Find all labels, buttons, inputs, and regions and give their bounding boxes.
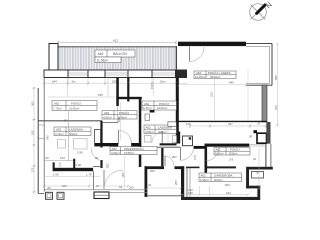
- door leaf to passage: [180, 147, 182, 160]
- door arc right pokoj: [206, 148, 219, 161]
- balcony hatched floor: [59, 47, 177, 70]
- svg-text:205: 205: [106, 163, 110, 168]
- wall right jog: [266, 122, 270, 144]
- svg-text:148: 148: [188, 191, 193, 195]
- door arc hall to small room: [118, 130, 131, 143]
- svg-text:2-9: 2-9: [229, 158, 233, 162]
- label box A62 GARDEROBA: [199, 173, 242, 182]
- label box A62 LAZIENKA left: [54, 127, 91, 136]
- bottom center room walls: [145, 166, 165, 169]
- svg-text:96: 96: [95, 156, 99, 160]
- left vertical dimension line: [32, 88, 36, 192]
- bathroom radiator fixture: [95, 130, 101, 147]
- svg-text:153: 153: [150, 84, 154, 89]
- bathroom bottom wall step: [44, 159, 75, 161]
- dim line y126: [190, 124, 270, 128]
- bathroom top wall: [38, 120, 102, 122]
- wall between block and right room: [176, 78, 179, 144]
- svg-text:40/92m²: 40/92m²: [210, 75, 220, 79]
- svg-text:12/92m²: 12/92m²: [69, 107, 79, 111]
- bath2 door leaf: [161, 132, 163, 144]
- door arc top-right room: [190, 47, 205, 62]
- vertical dim 313: [214, 79, 216, 120]
- bath2 fixtures: [145, 114, 150, 120]
- svg-text:91: 91: [253, 157, 257, 161]
- label box A62 PRZEDPOKOJ: [110, 146, 157, 155]
- label box A62 POKOJ mid-right: [142, 101, 176, 110]
- svg-text:11.06m²: 11.06m²: [97, 59, 108, 63]
- svg-text:2.99: 2.99: [77, 151, 83, 155]
- svg-text:313: 313: [210, 92, 214, 97]
- svg-text:A62: A62: [216, 148, 221, 152]
- vertical dim right-mid: [153, 78, 155, 96]
- svg-text:84: 84: [48, 186, 52, 190]
- svg-text:10/65m²: 10/65m²: [124, 151, 134, 155]
- wall thin y143.5: [141, 146, 180, 148]
- bath2 door arc: [152, 132, 162, 143]
- wall horizontal mid: [116, 97, 142, 99]
- svg-text:A62: A62: [54, 102, 60, 106]
- svg-text:2.4: 2.4: [58, 162, 62, 166]
- svg-text:203: 203: [129, 186, 134, 190]
- svg-text:203: 203: [225, 183, 230, 187]
- svg-text:205: 205: [174, 180, 178, 185]
- wall segment: [44, 70, 68, 78]
- bathroom right wall: [100, 121, 102, 148]
- svg-text:4.65m²: 4.65m²: [145, 130, 154, 134]
- svg-text:244: 244: [52, 79, 57, 83]
- svg-text:2.95m²: 2.95m²: [200, 178, 209, 182]
- garderoba top wall: [186, 166, 200, 168]
- svg-text:8.60m²: 8.60m²: [215, 152, 223, 156]
- wall top of small room: [102, 122, 118, 124]
- wall bottom of right room y121: [176, 120, 267, 122]
- svg-text:38: 38: [249, 134, 253, 138]
- balcony dimension line 412: [58, 41, 176, 45]
- svg-text:4.65m²: 4.65m²: [111, 151, 120, 155]
- svg-text:440: 440: [229, 81, 234, 85]
- svg-text:313: 313: [274, 105, 278, 110]
- svg-text:5/29m²: 5/29m²: [214, 178, 223, 182]
- top-right thick wall: [178, 42, 246, 46]
- bathroom fixtures: [74, 139, 88, 150]
- right room left wall: [175, 46, 177, 70]
- svg-text:267: 267: [172, 155, 177, 159]
- svg-text:205: 205: [121, 172, 125, 177]
- svg-text:1.78: 1.78: [86, 173, 92, 177]
- shaft white square: [257, 133, 267, 143]
- svg-text:7.73m²: 7.73m²: [53, 107, 62, 111]
- svg-text:12/10m²: 12/10m²: [157, 106, 167, 110]
- door arc to passage: [181, 147, 194, 160]
- garderoba left double wall: [186, 168, 188, 197]
- corner window right side: [246, 43, 272, 85]
- wall between left rooms: [116, 78, 119, 107]
- wall stub hall-east: [161, 148, 163, 166]
- svg-text:4.57m²: 4.57m²: [103, 115, 112, 119]
- svg-text:4.72m²: 4.72m²: [55, 132, 64, 136]
- svg-text:224: 224: [226, 191, 231, 195]
- compass needle: [256, 4, 266, 14]
- svg-text:155: 155: [98, 93, 103, 97]
- svg-text:POKÓJ: POKÓJ: [159, 101, 169, 106]
- svg-text:A62: A62: [98, 52, 104, 56]
- vertical dim mid: [120, 102, 122, 140]
- svg-text:5/02m²: 5/02m²: [69, 132, 78, 136]
- dryer: [57, 192, 64, 199]
- balcony label box A62 BALKON: [95, 50, 135, 63]
- wall vertical mid: [139, 97, 142, 167]
- svg-text:110: 110: [186, 122, 191, 126]
- entrance door arc: [104, 170, 123, 189]
- svg-text:117: 117: [31, 167, 35, 172]
- exterior window wall band: [44, 69, 187, 71]
- svg-text:2m: 2m: [72, 79, 77, 83]
- svg-text:9/30m²: 9/30m²: [229, 152, 237, 156]
- wall above right pokoj: [205, 144, 250, 147]
- dimension line y97: [48, 96, 115, 98]
- svg-text:180: 180: [117, 117, 121, 122]
- SE fixture box: [252, 172, 264, 179]
- svg-text:1.28: 1.28: [76, 163, 82, 167]
- wall edge left of entrance: [93, 171, 95, 190]
- svg-text:200: 200: [150, 169, 155, 173]
- svg-text:1.06: 1.06: [53, 173, 59, 177]
- window glazing lines: [68, 73, 175, 75]
- wall segment: [88, 70, 105, 78]
- label box A62 POKOJ bottom right: [214, 147, 250, 156]
- wall pier dark: [175, 70, 187, 78]
- dimension line under windows: [44, 78, 187, 97]
- svg-text:94: 94: [119, 185, 123, 189]
- svg-text:365: 365: [31, 101, 35, 106]
- label box A62 POKOJ small: [102, 110, 137, 119]
- vertical dim hall south: [124, 156, 126, 190]
- svg-text:247: 247: [228, 122, 233, 126]
- door gap arc bottom room: [165, 156, 174, 167]
- svg-text:POKÓJ: POKÓJ: [71, 101, 81, 106]
- balcony pillar: [49, 44, 58, 71]
- wall duct: [127, 78, 129, 102]
- left exterior wall lines: [37, 88, 39, 194]
- right gray wall: [262, 85, 267, 122]
- bath2 south wall: [160, 143, 177, 145]
- right vertical dim: [277, 44, 279, 126]
- svg-text:695: 695: [274, 75, 278, 80]
- label box A62 POKOJ left: [52, 101, 97, 111]
- door leaf top-right room: [189, 47, 191, 62]
- svg-text:94: 94: [46, 156, 50, 160]
- label box A62 LAZIENKA right: [144, 125, 176, 134]
- dimension tick marks: [33, 41, 279, 195]
- hall top wall: [95, 143, 118, 146]
- svg-text:173: 173: [193, 155, 197, 160]
- bottom wall right: [181, 197, 260, 200]
- svg-text:POKÓJ: POKÓJ: [230, 147, 240, 152]
- label box A62 POKOJ + ANEKS: [194, 70, 236, 79]
- svg-text:BALKON: BALKON: [113, 52, 127, 56]
- bottom right dims: [181, 194, 248, 196]
- door leaf hall to small room: [117, 130, 119, 144]
- dim 440: [178, 84, 246, 86]
- svg-text:192: 192: [31, 130, 35, 135]
- washer: [46, 192, 53, 199]
- wall segment: [128, 70, 152, 78]
- svg-text:6.47m²: 6.47m²: [143, 106, 152, 110]
- small black pillar: [254, 130, 258, 133]
- svg-text:A62: A62: [144, 102, 150, 106]
- entrance door leaf: [103, 170, 105, 189]
- right lower exterior walls: [265, 144, 267, 168]
- bottom band left: thin line: [44, 189, 147, 191]
- svg-text:41: 41: [148, 183, 152, 187]
- svg-text:245: 245: [46, 135, 50, 140]
- svg-text:10m: 10m: [160, 79, 166, 83]
- vertical dim right of hall: [167, 121, 169, 143]
- svg-text:12.29m²: 12.29m²: [195, 75, 205, 79]
- svg-text:58: 58: [256, 170, 260, 174]
- bottom window: [94, 192, 109, 199]
- duct box: [183, 136, 193, 146]
- compass rose: [250, 3, 267, 20]
- svg-text:412: 412: [113, 39, 118, 43]
- svg-text:97: 97: [258, 122, 262, 126]
- small duct below right room wall: [168, 122, 177, 127]
- bathroom door arc: [91, 148, 101, 161]
- svg-text:144: 144: [60, 156, 65, 160]
